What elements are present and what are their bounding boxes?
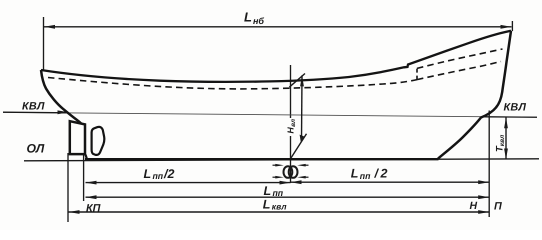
svg-text:/ 2: / 2 [372, 167, 387, 181]
svg-text:L: L [263, 198, 271, 212]
svg-text:П: П [494, 201, 502, 213]
svg-text:КВЛ: КВЛ [22, 101, 45, 113]
svg-text:квл: квл [499, 135, 506, 146]
svg-text:КВЛ: КВЛ [504, 102, 527, 114]
svg-text:нб: нб [253, 16, 264, 26]
svg-text:квл: квл [272, 201, 287, 211]
svg-text:L: L [244, 10, 252, 25]
svg-text:пп: пп [273, 188, 284, 198]
svg-text:L: L [351, 167, 359, 181]
svg-text:ОЛ: ОЛ [27, 142, 45, 156]
svg-text:Н: Н [470, 200, 478, 212]
svg-text:пп: пп [153, 171, 164, 181]
svg-text:/2: /2 [163, 167, 174, 181]
svg-text:вл: вл [290, 119, 297, 127]
svg-text:L: L [264, 184, 272, 198]
svg-text:КП: КП [86, 203, 101, 215]
svg-text:пп: пп [360, 171, 371, 181]
svg-text:L: L [144, 167, 152, 181]
